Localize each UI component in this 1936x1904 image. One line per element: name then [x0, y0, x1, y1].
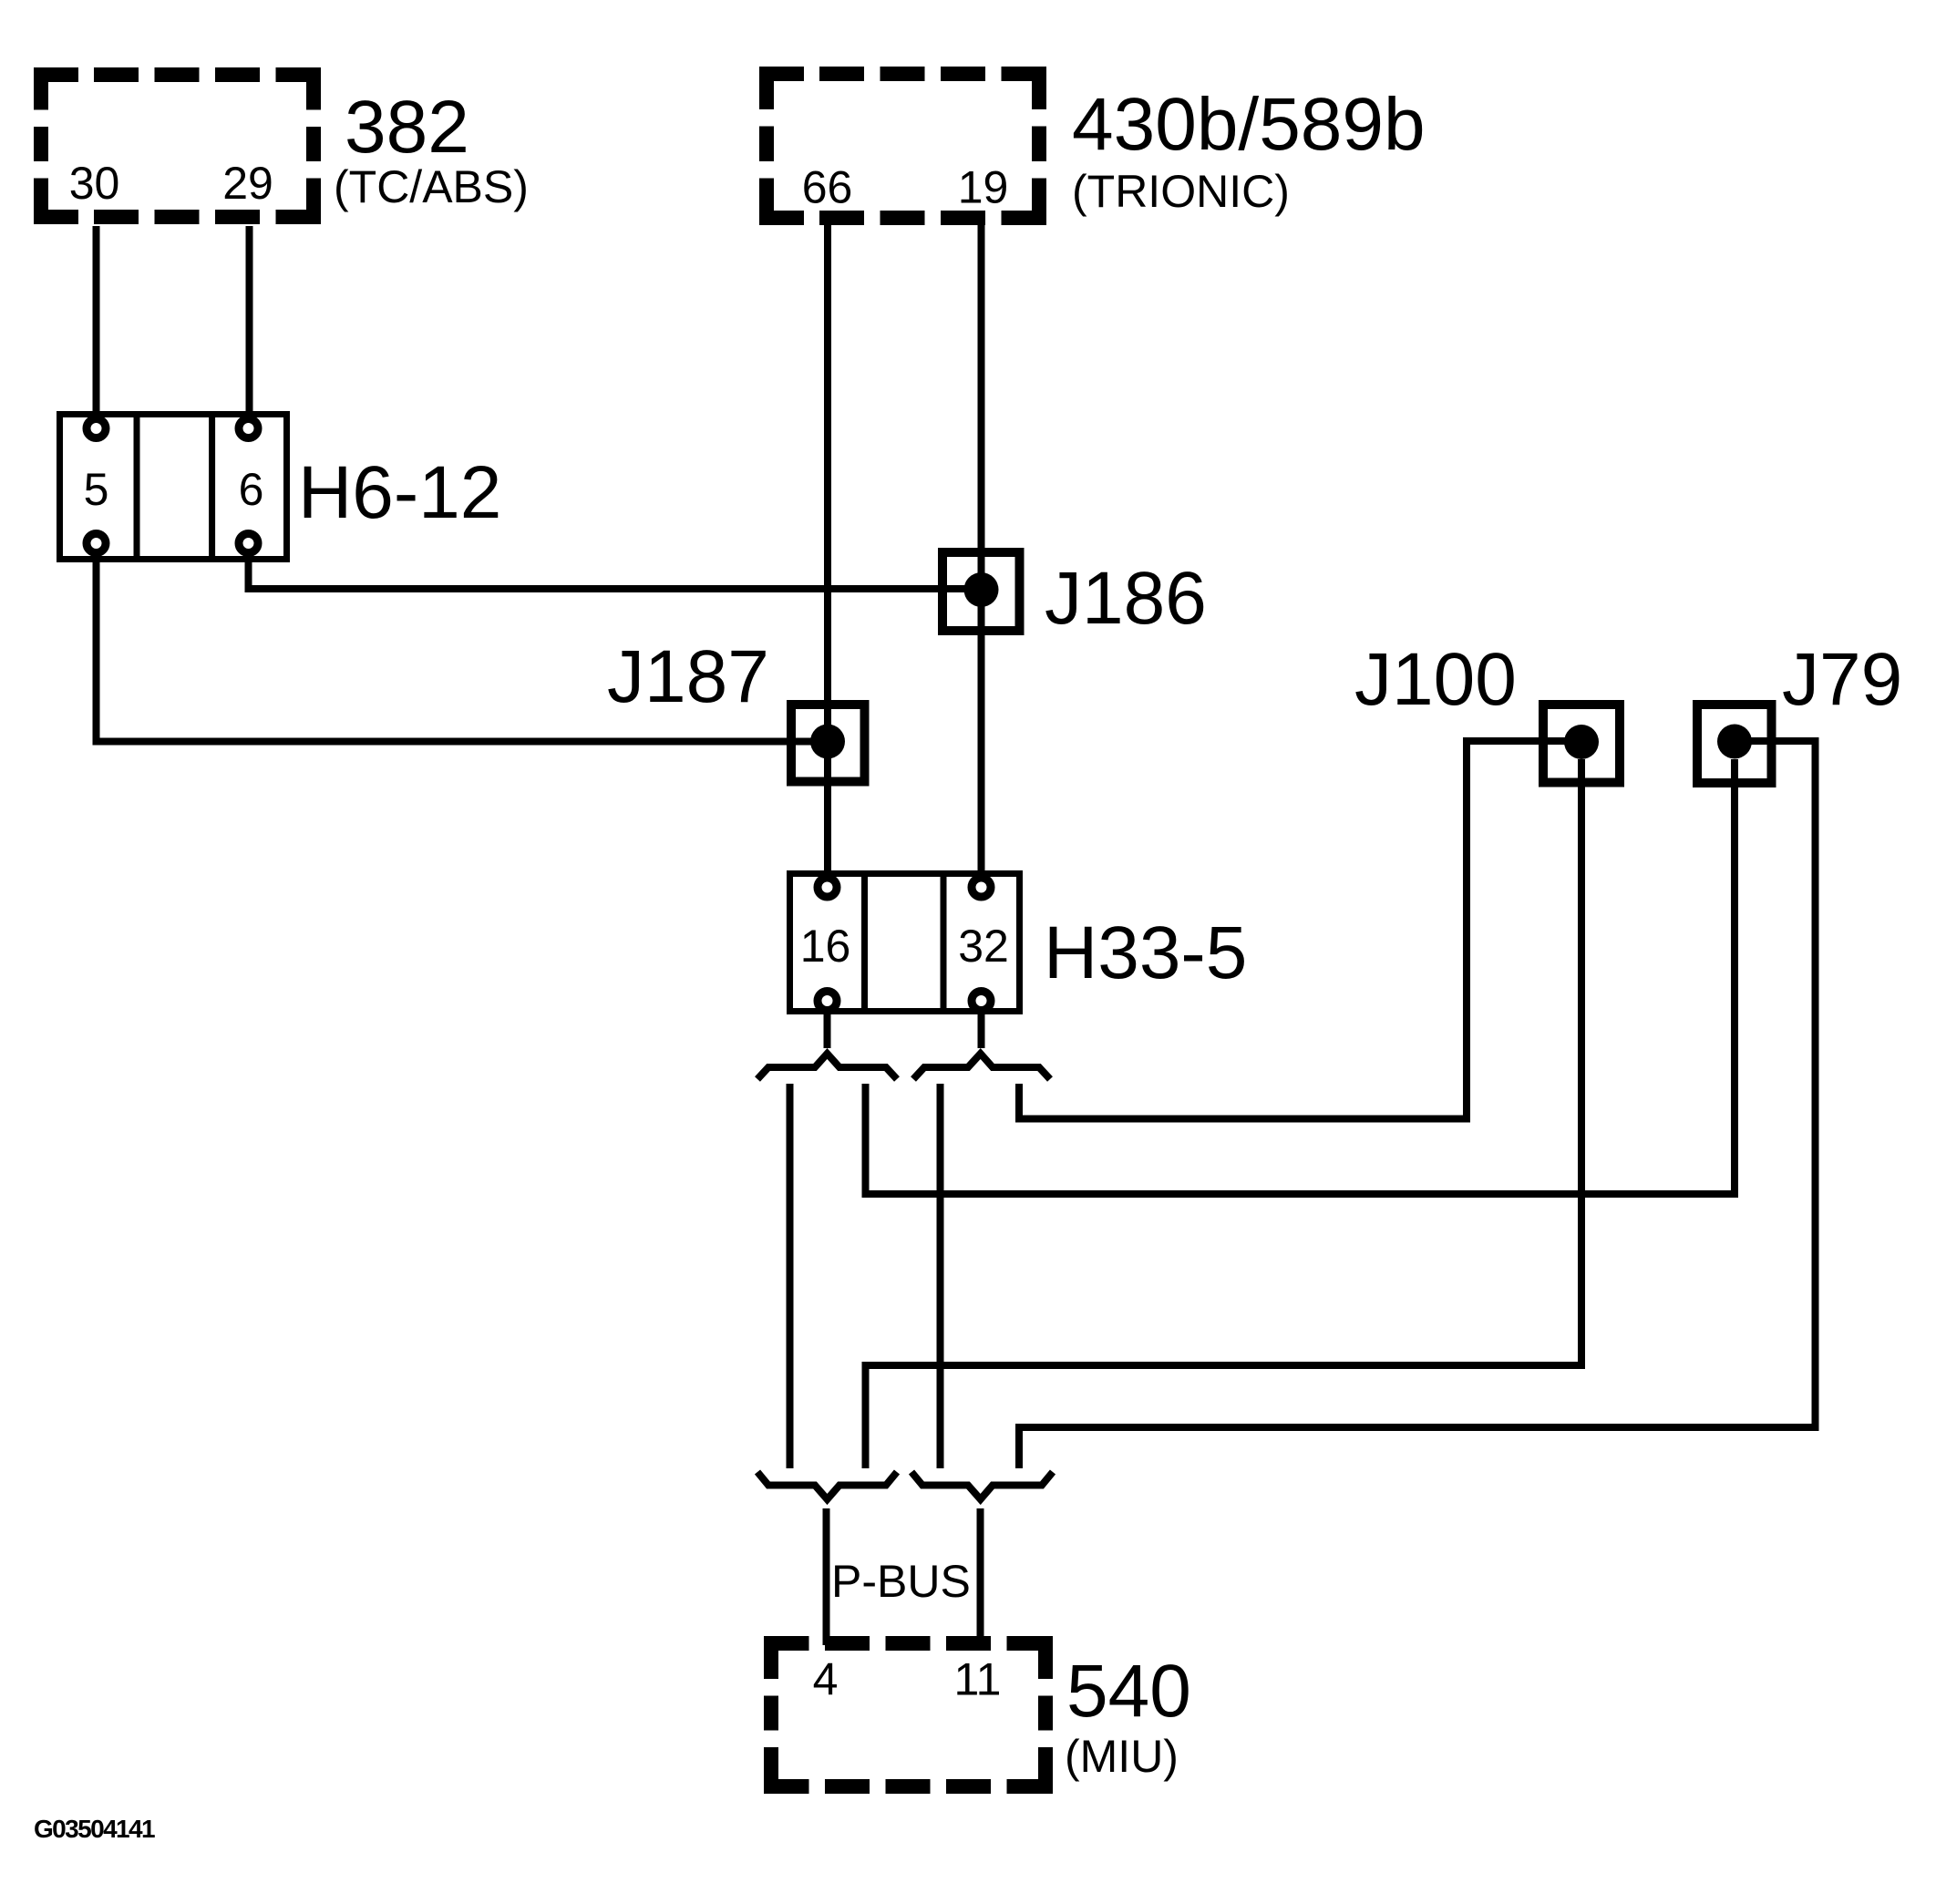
- svg-text:P-BUS: P-BUS: [831, 1556, 971, 1607]
- wire H33-5 pin32 to right upper brace: [978, 1013, 985, 1048]
- svg-text:19: 19: [958, 162, 1009, 213]
- svg-text:430b/589b: 430b/589b: [1072, 83, 1426, 166]
- svg-text:J100: J100: [1354, 638, 1517, 721]
- junction J187 box: [791, 705, 865, 782]
- wire 430b pin66 down through J187 to H33-5 pin16: [824, 225, 831, 877]
- svg-text:540: 540: [1066, 1650, 1191, 1733]
- bus wire 2 from left brace to junction J79 dot: [866, 759, 1735, 1194]
- pin socket circle H33-5 pin16 top: [818, 878, 837, 897]
- wire 382 pin29 to H6-12 pin6: [246, 226, 253, 417]
- svg-text:5: 5: [84, 464, 109, 515]
- pin socket circle H6-12 pin6 top: [239, 419, 258, 438]
- H6-12 cell divider left: [134, 415, 140, 560]
- wire H6-12 pin5 to junction J187: [97, 555, 829, 742]
- svg-text:16: 16: [800, 921, 851, 972]
- svg-text:H6-12: H6-12: [298, 451, 501, 534]
- svg-text:6: 6: [239, 464, 264, 515]
- svg-text:30: 30: [69, 158, 120, 209]
- wire 430b pin19 down through J186 to H33-5 pin32: [978, 225, 985, 877]
- lower right brace (bus merge to pin 11): [911, 1472, 1053, 1499]
- pin socket circle H33-5 pin32 top: [972, 878, 991, 897]
- P-BUS wire to 540 pin4: [823, 1508, 830, 1645]
- junction J187 dot: [810, 725, 845, 759]
- svg-text:(TC/ABS): (TC/ABS): [334, 161, 529, 212]
- svg-text:29: 29: [222, 158, 273, 209]
- P-BUS wire to 540 pin11: [977, 1508, 984, 1645]
- svg-text:11: 11: [954, 1654, 1002, 1705]
- bus wire 1 from left brace to lower left brace: [787, 1084, 794, 1468]
- junction J100 box: [1543, 705, 1620, 783]
- svg-text:(MIU): (MIU): [1065, 1731, 1179, 1782]
- connector H6-12 box: [60, 415, 287, 560]
- svg-text:(TRIONIC): (TRIONIC): [1072, 166, 1290, 217]
- svg-text:J79: J79: [1782, 638, 1902, 721]
- wire H6-12 pin6 to junction J186: [249, 555, 982, 589]
- H6-12 cell divider right: [209, 415, 215, 560]
- pin socket circle H33-5 pin32 bottom: [972, 992, 991, 1011]
- junction J186 box: [942, 552, 1020, 631]
- svg-text:32: 32: [958, 921, 1009, 972]
- pin socket circle H33-5 pin16 bottom: [818, 992, 837, 1011]
- lower left brace (bus merge to pin 4): [757, 1472, 897, 1499]
- svg-text:4: 4: [813, 1654, 839, 1705]
- control unit 382 (TC/ABS) dashed box: [34, 67, 321, 224]
- pin socket circle H6-12 pin5 bottom: [87, 534, 106, 553]
- svg-text:G03504141: G03504141: [34, 1815, 155, 1843]
- upper left brace (bus split at pin16): [757, 1054, 897, 1079]
- svg-text:J187: J187: [607, 635, 769, 718]
- control unit 430b/589b (TRIONIC) dashed box: [759, 67, 1046, 225]
- H33-5 cell divider right: [941, 874, 947, 1012]
- junction J79 dot: [1717, 725, 1752, 759]
- svg-text:66: 66: [802, 162, 853, 213]
- junction J100 dot: [1564, 725, 1599, 759]
- H33-5 cell divider left: [861, 874, 868, 1012]
- wire H33-5 pin16 to left upper brace: [824, 1013, 831, 1048]
- pin socket circle H6-12 pin6 bottom: [239, 534, 258, 553]
- bus wire 4 from right brace to junction J100 via elbow: [1019, 741, 1581, 1119]
- svg-text:382: 382: [345, 86, 469, 169]
- svg-text:H33-5: H33-5: [1044, 911, 1247, 994]
- junction J186 dot: [964, 572, 999, 607]
- wire from J100 dot down to lower left brace: [866, 759, 1582, 1468]
- wire from J79 dot right and down to lower right brace: [1019, 741, 1816, 1468]
- junction J79 box: [1697, 705, 1772, 783]
- connector H33-5 box: [790, 874, 1020, 1012]
- pin socket circle H6-12 pin5 top: [87, 419, 106, 438]
- bus wire 3 from right brace to lower right brace: [937, 1084, 944, 1468]
- svg-text:J186: J186: [1045, 557, 1207, 640]
- control unit 540 (MIU) dashed box: [764, 1636, 1053, 1794]
- upper right brace (bus split at pin32): [913, 1054, 1050, 1079]
- wire 382 pin30 to H6-12 pin5: [93, 226, 100, 417]
